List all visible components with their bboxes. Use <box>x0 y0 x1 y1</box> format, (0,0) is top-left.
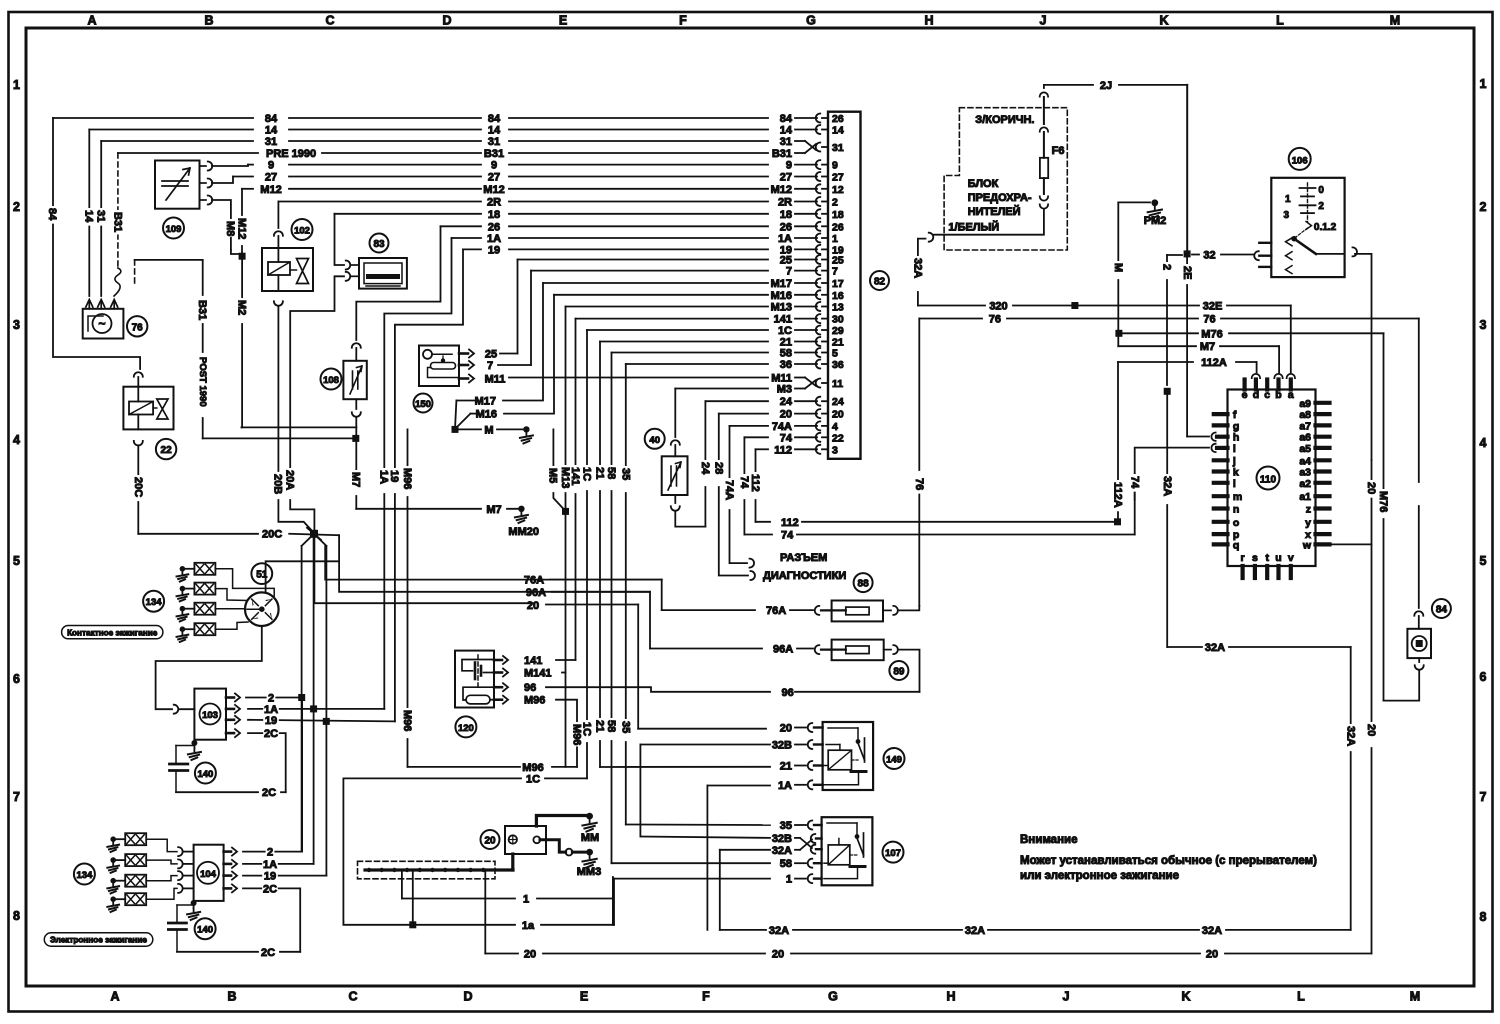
svg-text:PRE 1990: PRE 1990 <box>266 148 316 160</box>
svg-text:31: 31 <box>95 210 107 222</box>
svg-text:108: 108 <box>323 375 339 386</box>
svg-text:74: 74 <box>738 476 750 489</box>
svg-text:20: 20 <box>780 723 792 735</box>
svg-text:M96: M96 <box>524 695 545 707</box>
svg-text:14: 14 <box>832 125 844 137</box>
svg-text:M16: M16 <box>771 290 792 302</box>
svg-text:103: 103 <box>202 710 218 721</box>
svg-text:16: 16 <box>832 290 844 302</box>
svg-text:2C: 2C <box>262 787 276 799</box>
svg-text:141: 141 <box>569 467 581 485</box>
svg-text:f: f <box>1233 409 1237 421</box>
svg-text:89: 89 <box>893 667 905 678</box>
svg-text:19: 19 <box>388 470 400 482</box>
svg-text:h: h <box>1233 432 1239 444</box>
svg-text:120: 120 <box>458 723 474 734</box>
svg-text:3: 3 <box>832 444 838 456</box>
svg-text:19: 19 <box>264 871 276 883</box>
svg-text:11: 11 <box>832 378 843 390</box>
svg-text:L: L <box>1276 14 1284 28</box>
svg-text:K: K <box>1181 990 1190 1004</box>
svg-text:74A: 74A <box>772 421 792 433</box>
svg-text:84: 84 <box>488 113 501 125</box>
svg-text:M141: M141 <box>524 668 552 680</box>
svg-text:1: 1 <box>523 894 529 906</box>
svg-text:32A: 32A <box>1205 642 1225 654</box>
svg-text:12: 12 <box>832 184 844 196</box>
svg-text:G: G <box>828 990 838 1004</box>
svg-text:26: 26 <box>832 221 844 233</box>
svg-text:7: 7 <box>786 266 792 278</box>
svg-text:2: 2 <box>267 847 273 859</box>
svg-text:M: M <box>484 424 493 436</box>
svg-text:9: 9 <box>786 160 792 172</box>
svg-text:1A: 1A <box>778 233 792 245</box>
svg-text:58: 58 <box>780 858 792 870</box>
svg-text:M12: M12 <box>236 218 248 239</box>
svg-text:19: 19 <box>488 244 500 256</box>
svg-text:F: F <box>679 14 687 28</box>
svg-text:4: 4 <box>1480 436 1487 450</box>
svg-text:M17: M17 <box>771 278 792 290</box>
svg-text:104: 104 <box>200 869 217 880</box>
svg-text:141: 141 <box>524 655 542 667</box>
svg-text:74: 74 <box>780 432 793 444</box>
svg-text:3: 3 <box>1480 318 1487 332</box>
svg-text:БЛОК: БЛОК <box>968 178 999 190</box>
svg-text:140: 140 <box>197 769 213 780</box>
svg-text:27: 27 <box>265 172 277 184</box>
svg-text:B31: B31 <box>196 300 208 320</box>
svg-text:Контактное зажигание: Контактное зажигание <box>67 628 158 637</box>
svg-text:88: 88 <box>858 579 870 590</box>
svg-text:20: 20 <box>1365 724 1377 736</box>
svg-text:27: 27 <box>780 172 792 184</box>
svg-text:M17: M17 <box>475 396 496 408</box>
svg-text:27: 27 <box>488 172 500 184</box>
svg-text:M8: M8 <box>224 221 236 236</box>
svg-text:H: H <box>924 14 933 28</box>
svg-text:18: 18 <box>780 209 792 221</box>
svg-text:a8: a8 <box>1299 409 1311 421</box>
svg-text:112A: 112A <box>1112 482 1124 508</box>
svg-text:z: z <box>1306 504 1311 516</box>
svg-text:Электронное зажигание: Электронное зажигание <box>50 936 147 945</box>
svg-text:F: F <box>702 990 710 1004</box>
svg-text:M96: M96 <box>401 710 413 731</box>
svg-text:32A: 32A <box>1202 925 1222 937</box>
svg-text:4: 4 <box>13 433 20 447</box>
svg-text:32E: 32E <box>1203 301 1223 313</box>
svg-text:o: o <box>1233 517 1239 529</box>
svg-text:96: 96 <box>782 687 794 699</box>
svg-text:51: 51 <box>256 570 268 581</box>
svg-text:32A: 32A <box>1344 726 1356 746</box>
svg-text:M16: M16 <box>476 409 497 421</box>
svg-text:82: 82 <box>874 277 886 288</box>
svg-text:A: A <box>87 14 96 28</box>
svg-text:31: 31 <box>832 142 844 154</box>
svg-text:2: 2 <box>1161 264 1173 270</box>
svg-text:1C: 1C <box>581 467 593 481</box>
svg-text:3: 3 <box>1283 210 1289 221</box>
svg-text:20: 20 <box>484 836 496 847</box>
svg-text:58: 58 <box>780 348 792 360</box>
svg-text:18: 18 <box>832 209 844 221</box>
svg-text:32B: 32B <box>772 740 792 752</box>
svg-text:g: g <box>1233 420 1239 432</box>
svg-text:a2: a2 <box>1299 478 1311 490</box>
svg-text:k: k <box>1233 467 1239 479</box>
svg-text:30: 30 <box>832 314 844 326</box>
svg-text:M7: M7 <box>486 504 501 516</box>
svg-text:14: 14 <box>83 210 95 223</box>
svg-text:20A: 20A <box>284 470 296 490</box>
svg-text:20: 20 <box>1365 482 1377 494</box>
svg-text:ПРЕДОХРА-: ПРЕДОХРА- <box>968 192 1032 204</box>
svg-text:РАЗЪЕМ: РАЗЪЕМ <box>780 552 827 564</box>
svg-text:96A: 96A <box>773 644 793 656</box>
svg-text:40: 40 <box>649 435 660 446</box>
svg-text:C: C <box>325 14 334 28</box>
svg-text:2R: 2R <box>487 197 501 209</box>
svg-text:6: 6 <box>13 672 20 686</box>
svg-text:20: 20 <box>1206 949 1218 961</box>
svg-text:M12: M12 <box>771 184 792 196</box>
svg-text:Может устанавливаться обычное: Может устанавливаться обычное (с прерыва… <box>1020 855 1317 867</box>
svg-text:76: 76 <box>989 314 1001 326</box>
svg-text:1: 1 <box>786 874 792 886</box>
svg-text:или электронное зажигание: или электронное зажигание <box>1020 870 1179 882</box>
svg-text:20: 20 <box>772 949 784 961</box>
svg-text:150: 150 <box>415 399 431 410</box>
svg-text:74A: 74A <box>723 480 735 500</box>
svg-text:K: K <box>1159 14 1168 28</box>
svg-text:B31: B31 <box>112 212 124 232</box>
svg-text:1: 1 <box>832 233 838 245</box>
svg-text:29: 29 <box>832 325 844 337</box>
svg-text:M12: M12 <box>260 184 281 196</box>
svg-text:36: 36 <box>832 359 844 371</box>
svg-text:134: 134 <box>76 870 93 881</box>
svg-text:112: 112 <box>749 474 761 492</box>
svg-text:M: M <box>1410 990 1420 1004</box>
svg-text:a: a <box>1288 389 1294 401</box>
svg-text:9: 9 <box>268 160 274 172</box>
svg-text:1A: 1A <box>778 780 792 792</box>
svg-text:M11: M11 <box>485 374 506 386</box>
svg-text:2: 2 <box>832 197 838 209</box>
svg-text:РМ2: РМ2 <box>1144 215 1166 227</box>
svg-text:1A: 1A <box>378 470 390 484</box>
svg-text:31: 31 <box>488 136 500 148</box>
svg-text:a4: a4 <box>1299 455 1311 467</box>
svg-text:2C: 2C <box>263 883 277 895</box>
svg-text:76: 76 <box>132 322 144 333</box>
svg-text:84: 84 <box>1436 605 1448 616</box>
svg-text:2: 2 <box>268 693 274 705</box>
svg-text:8: 8 <box>13 909 20 923</box>
svg-text:2R: 2R <box>778 197 792 209</box>
svg-text:76: 76 <box>1203 314 1215 326</box>
svg-text:7: 7 <box>13 790 20 804</box>
svg-text:2: 2 <box>1480 200 1487 214</box>
svg-text:a6: a6 <box>1299 432 1311 444</box>
svg-text:2C: 2C <box>261 947 275 959</box>
svg-text:8: 8 <box>1480 910 1487 924</box>
svg-text:76: 76 <box>913 478 925 490</box>
svg-text:19: 19 <box>265 715 277 727</box>
svg-text:7: 7 <box>832 266 838 278</box>
svg-text:31: 31 <box>780 136 792 148</box>
svg-text:76A: 76A <box>766 605 786 617</box>
svg-text:1A: 1A <box>263 859 277 871</box>
svg-text:M: M <box>1112 263 1124 272</box>
svg-text:r: r <box>1241 552 1245 564</box>
svg-text:109: 109 <box>166 224 182 235</box>
svg-text:20B: 20B <box>272 474 284 494</box>
svg-text:1: 1 <box>13 78 20 92</box>
svg-text:G: G <box>806 14 816 28</box>
svg-text:a7: a7 <box>1299 420 1311 432</box>
svg-text:84: 84 <box>46 208 58 221</box>
svg-text:M96: M96 <box>522 762 543 774</box>
svg-text:14: 14 <box>265 125 278 137</box>
svg-text:35: 35 <box>620 468 632 480</box>
svg-text:107: 107 <box>885 848 901 859</box>
svg-text:n: n <box>1233 504 1239 516</box>
svg-text:i: i <box>1233 443 1236 455</box>
svg-text:b: b <box>1275 389 1281 401</box>
svg-text:1C: 1C <box>778 325 792 337</box>
svg-text:58: 58 <box>605 720 617 732</box>
svg-text:u: u <box>1275 552 1281 564</box>
svg-text:НИТЕЛЕЙ: НИТЕЛЕЙ <box>968 205 1021 218</box>
svg-text:106: 106 <box>1292 155 1308 166</box>
svg-text:112: 112 <box>774 444 792 456</box>
svg-text:20C: 20C <box>262 529 282 541</box>
svg-text:25: 25 <box>485 349 497 361</box>
svg-text:2: 2 <box>13 200 20 214</box>
svg-text:0: 0 <box>1318 185 1324 196</box>
svg-text:9: 9 <box>491 160 497 172</box>
svg-text:18: 18 <box>488 209 500 221</box>
svg-text:M7: M7 <box>1200 341 1215 353</box>
svg-text:J: J <box>1040 14 1047 28</box>
svg-text:5: 5 <box>13 554 20 568</box>
svg-text:74: 74 <box>781 530 794 542</box>
svg-text:20: 20 <box>780 409 792 421</box>
svg-text:134: 134 <box>146 597 163 608</box>
svg-text:M96: M96 <box>401 468 413 489</box>
svg-text:t: t <box>1265 552 1269 564</box>
svg-text:e: e <box>1242 389 1248 401</box>
svg-text:320: 320 <box>989 301 1007 313</box>
svg-text:1/БЕЛЫЙ: 1/БЕЛЫЙ <box>948 221 999 234</box>
svg-text:5: 5 <box>832 348 838 360</box>
svg-text:27: 27 <box>832 172 844 184</box>
svg-text:21: 21 <box>780 761 792 773</box>
svg-text:26: 26 <box>780 221 792 233</box>
svg-text:58: 58 <box>605 467 617 479</box>
svg-text:32B: 32B <box>772 833 792 845</box>
svg-text:24: 24 <box>780 396 793 408</box>
svg-text:32: 32 <box>1203 250 1215 262</box>
svg-text:E: E <box>580 990 588 1004</box>
svg-text:M76: M76 <box>1377 491 1389 512</box>
svg-text:M76: M76 <box>1201 328 1222 340</box>
svg-text:24: 24 <box>832 396 844 408</box>
svg-text:141: 141 <box>774 314 792 326</box>
svg-text:96A: 96A <box>526 587 546 599</box>
svg-text:s: s <box>1252 552 1258 564</box>
svg-text:112A: 112A <box>1201 357 1227 369</box>
svg-text:Внимание: Внимание <box>1020 834 1077 846</box>
svg-text:74: 74 <box>1128 476 1140 489</box>
svg-text:2J: 2J <box>1100 80 1112 92</box>
svg-text:24: 24 <box>699 462 711 475</box>
svg-text:35: 35 <box>780 820 792 832</box>
svg-text:32A: 32A <box>965 925 985 937</box>
svg-text:y: y <box>1305 517 1311 529</box>
svg-text:M2: M2 <box>236 300 248 315</box>
svg-text:2E: 2E <box>1181 266 1193 279</box>
svg-text:112: 112 <box>781 517 799 529</box>
svg-text:~: ~ <box>98 317 105 331</box>
svg-text:A: A <box>110 990 119 1004</box>
svg-text:7: 7 <box>1480 790 1487 804</box>
svg-text:20: 20 <box>832 409 844 421</box>
svg-text:B31: B31 <box>772 148 792 160</box>
svg-text:M13: M13 <box>771 302 792 314</box>
svg-text:36: 36 <box>780 359 792 371</box>
svg-text:m: m <box>1233 491 1242 503</box>
svg-text:84: 84 <box>265 113 278 125</box>
svg-text:M96: M96 <box>571 724 583 745</box>
svg-text:7: 7 <box>487 360 493 372</box>
svg-text:2: 2 <box>1318 201 1324 212</box>
svg-text:J: J <box>1063 990 1070 1004</box>
svg-text:C: C <box>348 990 357 1004</box>
svg-text:1: 1 <box>1480 77 1487 91</box>
svg-text:v: v <box>1288 552 1294 564</box>
svg-text:q: q <box>1233 539 1239 551</box>
svg-text:76A: 76A <box>524 575 544 587</box>
svg-text:17: 17 <box>832 278 844 290</box>
svg-text:31: 31 <box>265 136 277 148</box>
svg-text:H: H <box>946 990 955 1004</box>
svg-text:20: 20 <box>527 600 539 612</box>
svg-text:13: 13 <box>832 302 844 314</box>
svg-text:M5: M5 <box>547 468 559 483</box>
svg-text:B31: B31 <box>484 148 504 160</box>
svg-text:1a: 1a <box>522 920 535 932</box>
svg-text:83: 83 <box>373 239 385 250</box>
svg-text:B: B <box>204 14 213 28</box>
svg-text:M: M <box>1390 14 1400 28</box>
svg-text:MM: MM <box>581 832 599 844</box>
svg-text:14: 14 <box>780 125 793 137</box>
svg-text:a9: a9 <box>1299 398 1311 410</box>
svg-text:96: 96 <box>524 682 536 694</box>
svg-text:26: 26 <box>488 221 500 233</box>
svg-text:POST 1990: POST 1990 <box>197 357 208 407</box>
svg-text:140: 140 <box>197 925 213 936</box>
svg-text:22: 22 <box>161 445 173 456</box>
svg-text:MM20: MM20 <box>508 526 539 538</box>
svg-text:a1: a1 <box>1299 491 1311 503</box>
svg-text:l: l <box>1233 478 1236 490</box>
svg-text:5: 5 <box>1480 554 1487 568</box>
svg-text:102: 102 <box>294 226 310 237</box>
svg-text:d: d <box>1253 389 1259 401</box>
svg-text:28: 28 <box>713 462 725 474</box>
svg-text:M12: M12 <box>483 184 504 196</box>
svg-text:110: 110 <box>1260 475 1277 486</box>
svg-text:4: 4 <box>832 421 838 433</box>
svg-text:22: 22 <box>832 432 844 444</box>
svg-text:14: 14 <box>488 125 501 137</box>
svg-text:L: L <box>1297 990 1305 1004</box>
svg-text:ДИАГНОСТИКИ: ДИАГНОСТИКИ <box>763 570 846 582</box>
svg-text:35: 35 <box>620 721 632 733</box>
svg-text:32A: 32A <box>769 925 789 937</box>
svg-text:0.1.2: 0.1.2 <box>1314 222 1337 233</box>
svg-text:149: 149 <box>886 755 902 766</box>
svg-text:20: 20 <box>524 949 536 961</box>
svg-text:9: 9 <box>832 160 838 172</box>
svg-text:1: 1 <box>1285 194 1291 205</box>
svg-text:32A: 32A <box>772 845 792 857</box>
svg-text:2C: 2C <box>264 728 278 740</box>
svg-text:D: D <box>442 14 451 28</box>
svg-text:21: 21 <box>594 467 606 479</box>
svg-text:M7: M7 <box>350 472 362 487</box>
svg-text:E: E <box>559 14 567 28</box>
svg-text:F6: F6 <box>1052 145 1065 157</box>
svg-text:c: c <box>1264 389 1270 401</box>
svg-text:MM3: MM3 <box>577 866 601 878</box>
svg-text:w: w <box>1302 539 1312 551</box>
svg-text:84: 84 <box>780 113 793 125</box>
svg-text:B: B <box>227 990 236 1004</box>
svg-text:a3: a3 <box>1299 467 1311 479</box>
svg-text:a5: a5 <box>1299 443 1311 455</box>
svg-text:32A: 32A <box>1161 476 1173 496</box>
svg-text:D: D <box>463 990 472 1004</box>
svg-text:26: 26 <box>832 113 844 125</box>
svg-text:M3: M3 <box>777 384 792 396</box>
svg-text:1A: 1A <box>487 233 501 245</box>
svg-text:З/КОРИЧН.: З/КОРИЧН. <box>975 114 1034 126</box>
svg-text:3: 3 <box>13 318 20 332</box>
svg-text:32A: 32A <box>912 258 924 278</box>
svg-text:6: 6 <box>1480 670 1487 684</box>
svg-text:j: j <box>1232 455 1236 467</box>
svg-text:1C: 1C <box>526 773 540 785</box>
svg-text:20C: 20C <box>132 477 144 497</box>
svg-text:21: 21 <box>594 720 606 732</box>
